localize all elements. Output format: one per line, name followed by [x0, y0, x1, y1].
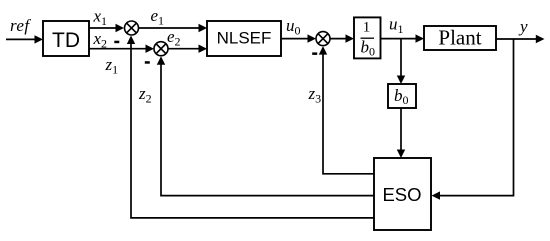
svg-text:ESO: ESO	[382, 184, 421, 205]
block b0 gain	[388, 84, 416, 108]
svg-text:ref: ref	[10, 16, 31, 35]
summing junction 2	[154, 42, 168, 56]
wire x2: TD to junction 2	[89, 45, 154, 53]
minus sign at junction 2	[145, 61, 150, 64]
summing junction 3	[316, 32, 330, 46]
svg-text:TD: TD	[52, 29, 80, 52]
wire z2: ESO left to junction 2	[157, 56, 374, 195]
wire branch u1 down to b0	[397, 39, 405, 84]
wire y feedback down and into ESO right	[432, 39, 514, 200]
wire y: Plant output	[496, 35, 545, 43]
svg-text:1: 1	[363, 20, 371, 36]
minus sign at junction 1	[114, 41, 119, 44]
block NLSEF	[207, 21, 281, 56]
wire u0: NLSEF to junction 3	[281, 34, 316, 42]
wire u1: 1/b0 to Plant	[381, 34, 425, 42]
block Plant	[424, 25, 496, 50]
summing junction 1	[125, 21, 139, 35]
wire ref input arrow	[6, 35, 43, 43]
block 1/b0 gain	[354, 17, 381, 58]
wire e1: junction 1 to NLSEF	[139, 24, 208, 32]
block ESO	[374, 158, 431, 230]
svg-text:Plant: Plant	[438, 25, 481, 49]
wire junction 3 to 1/b0 block	[330, 34, 354, 42]
wire e2: junction 2 to NLSEF	[168, 45, 207, 53]
block TD	[43, 21, 89, 56]
svg-text:y: y	[518, 17, 528, 36]
wire z1: ESO left to junction 1	[127, 36, 374, 218]
wire z3: ESO left to junction 3	[319, 46, 374, 174]
svg-text:NLSEF: NLSEF	[217, 29, 272, 48]
wire b0 down to ESO	[397, 108, 405, 158]
wire x1: TD to junction 1	[89, 24, 124, 32]
minus sign at junction 3	[312, 52, 317, 55]
